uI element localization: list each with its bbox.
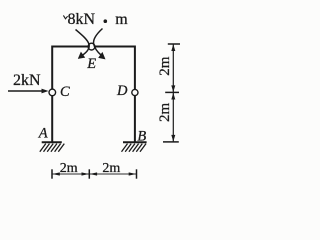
svg-text:C: C <box>60 84 70 100</box>
svg-text:2kN: 2kN <box>13 72 41 89</box>
right dimension line shaft top segment <box>172 45 174 93</box>
support B ground line <box>123 141 147 143</box>
right dim top tick <box>168 43 180 45</box>
right dim arrowhead down at bottom tick <box>171 135 175 142</box>
moment left curve <box>76 30 90 56</box>
moment dot <box>104 19 108 23</box>
support A ground line <box>42 141 62 143</box>
svg-text:2m: 2m <box>60 161 78 176</box>
bottom dim arrowhead right of left segment <box>82 172 90 175</box>
svg-text:m: m <box>115 11 128 28</box>
svg-text:D: D <box>116 83 128 99</box>
right dim bottom tick <box>163 141 179 143</box>
bottom dim left tick <box>51 169 53 178</box>
bottom dimension shaft right segment <box>89 173 136 175</box>
stray tick before 8 <box>63 15 67 18</box>
right dimension line shaft bottom segment <box>172 92 174 141</box>
bottom dim right tick <box>136 169 138 178</box>
hinge E <box>88 43 95 50</box>
bottom dim arrowhead left of right segment <box>90 172 98 175</box>
load 2kN arrowhead <box>42 89 49 94</box>
svg-text:2m: 2m <box>157 102 173 122</box>
svg-text:E: E <box>86 56 96 72</box>
support B hatching <box>122 144 147 152</box>
hinge C <box>49 89 56 96</box>
svg-text:2m: 2m <box>102 161 120 176</box>
moment right curve <box>94 29 103 56</box>
svg-text:2m: 2m <box>157 56 173 76</box>
bottom dim arrowhead right outward <box>129 172 137 175</box>
right dim arrowhead up at top tick <box>171 44 175 51</box>
hinge D <box>132 89 138 95</box>
support A hatching <box>40 144 65 152</box>
bottom dim middle tick <box>88 169 90 178</box>
svg-text:B: B <box>137 128 146 144</box>
svg-text:8kN: 8kN <box>68 11 96 28</box>
right dim arrowhead up at middle tick (from below) <box>171 93 175 100</box>
right dim middle tick <box>165 91 179 93</box>
load 2kN arrow shaft <box>8 90 44 92</box>
left column A-C-corner <box>51 46 53 143</box>
right column B-D-corner <box>134 46 136 143</box>
beam AE-EB top member <box>52 46 136 48</box>
bottom dim arrowhead left outward <box>52 172 60 175</box>
moment right arrowhead <box>98 52 105 60</box>
svg-text:A: A <box>38 126 48 142</box>
bottom dimension shaft left segment <box>52 173 89 175</box>
moment left arrowhead <box>78 52 85 59</box>
right dim arrowhead down at middle tick (from above) <box>171 85 175 92</box>
